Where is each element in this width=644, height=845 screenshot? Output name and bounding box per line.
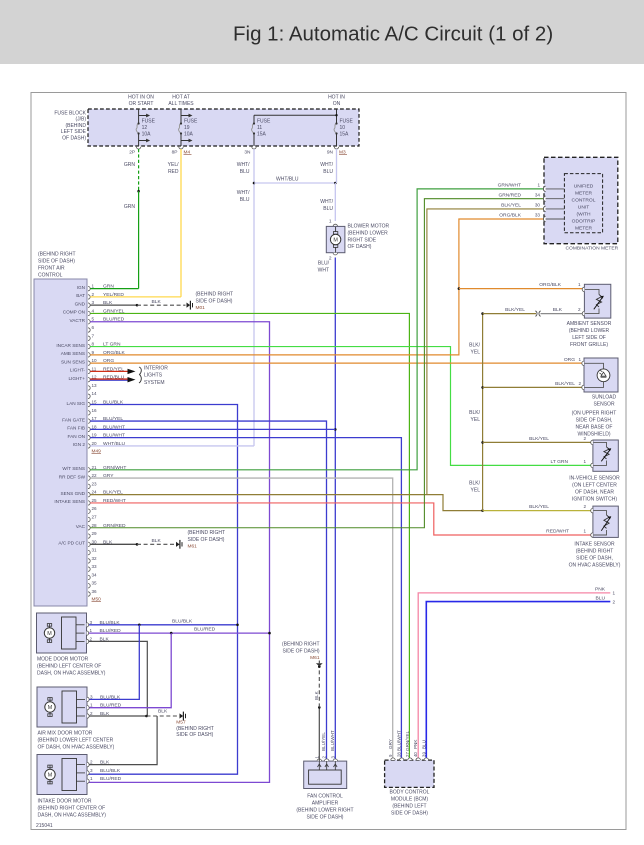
- pin 8 front air control: [88, 344, 90, 348]
- pin 2 front air control: [88, 295, 90, 299]
- svg-text:INTAKE SENS: INTAKE SENS: [54, 499, 85, 504]
- svg-text:COMP ON: COMP ON: [63, 310, 85, 315]
- svg-text:WHT/: WHT/: [237, 162, 250, 168]
- pin 5 front air control: [88, 320, 90, 324]
- svg-text:22: 22: [92, 473, 98, 478]
- wire BLK/YEL bus to intake sensor pin2: [483, 510, 593, 512]
- svg-text:BLK/YEL: BLK/YEL: [529, 436, 549, 442]
- wire air mix branch BLU/BLK: [89, 625, 139, 700]
- svg-text:DASH, ON HVAC ASSEMBLY): DASH, ON HVAC ASSEMBLY): [38, 812, 107, 818]
- wire pin2 YEL/RED: [90, 296, 181, 298]
- svg-text:15A: 15A: [257, 132, 267, 138]
- mode door motor: [37, 613, 87, 653]
- svg-text:BLU/BLK: BLU/BLK: [172, 618, 193, 624]
- svg-text:(BEHIND: (BEHIND: [65, 123, 86, 129]
- svg-text:MODE DOOR MOTOR: MODE DOOR MOTOR: [37, 657, 89, 663]
- pin 9 front air control: [88, 353, 90, 357]
- svg-text:11: 11: [92, 366, 97, 371]
- svg-text:AMB SENS: AMB SENS: [61, 351, 85, 356]
- svg-text:27: 27: [92, 514, 98, 519]
- svg-text:WHT/: WHT/: [237, 190, 250, 196]
- svg-text:10: 10: [340, 125, 346, 131]
- wire mode BLU/RED: [89, 632, 270, 634]
- svg-text:2: 2: [90, 636, 93, 641]
- svg-text:6: 6: [92, 325, 95, 330]
- svg-text:(J/B): (J/B): [75, 117, 86, 123]
- svg-text:1: 1: [578, 282, 581, 287]
- wire ORG/BLK branch to ambient sensor: [459, 288, 583, 290]
- pin 4 front air control: [88, 311, 90, 315]
- svg-text:WHT: WHT: [318, 267, 329, 273]
- svg-text:BLK: BLK: [152, 538, 162, 544]
- wire WHT/BLU from fuse 11: [253, 149, 255, 446]
- svg-text:HOT IN ON: HOT IN ON: [128, 95, 154, 101]
- svg-text:GRN/RED: GRN/RED: [498, 192, 521, 198]
- svg-text:FUSE: FUSE: [340, 118, 354, 124]
- svg-text:VAC: VAC: [76, 524, 86, 529]
- svg-text:WINDSHIELD): WINDSHIELD): [577, 432, 610, 438]
- svg-text:3: 3: [90, 768, 93, 773]
- svg-text:BLU: BLU: [323, 206, 333, 212]
- wire WHT/BLU crossover: [254, 182, 335, 184]
- svg-text:AMPLIFIER: AMPLIFIER: [312, 801, 339, 807]
- svg-text:BLU/: BLU/: [318, 261, 330, 267]
- svg-text:10: 10: [92, 358, 98, 363]
- svg-text:FAN GATE: FAN GATE: [62, 417, 85, 422]
- svg-text:GRN: GRN: [124, 162, 136, 168]
- svg-text:2: 2: [92, 292, 95, 297]
- wire BLK/YEL to in-vehicle pin2: [483, 441, 593, 443]
- svg-text:30: 30: [92, 539, 98, 544]
- svg-text:YEL: YEL: [471, 349, 481, 355]
- svg-text:RED/WHT: RED/WHT: [546, 529, 569, 535]
- svg-text:BLU/RED: BLU/RED: [100, 776, 122, 782]
- svg-text:SIDE OF DASH,: SIDE OF DASH,: [576, 418, 613, 424]
- svg-text:(BEHIND RIGHT: (BEHIND RIGHT: [196, 292, 234, 298]
- svg-text:LIGHT-: LIGHT-: [70, 368, 86, 373]
- wire pin1 GRN: [90, 288, 138, 290]
- svg-text:INTERIOR: INTERIOR: [144, 366, 168, 372]
- svg-text:M61: M61: [310, 655, 320, 661]
- svg-text:FAN FIB: FAN FIB: [67, 426, 85, 431]
- ambient sensor: [584, 284, 610, 318]
- svg-text:IGN: IGN: [77, 285, 85, 290]
- svg-text:SUNLOAD: SUNLOAD: [592, 395, 617, 401]
- wire PNK to BCM 40: [418, 593, 610, 760]
- wire pin20 WHT/BLU from fuse 11: [90, 445, 254, 447]
- svg-text:28: 28: [92, 523, 98, 528]
- wire BLU/WHT blower to fan amp: [334, 258, 336, 762]
- svg-text:15A: 15A: [340, 132, 350, 138]
- svg-text:SIDE OF DASH): SIDE OF DASH): [188, 537, 225, 543]
- svg-text:1: 1: [90, 703, 93, 708]
- pin 35 front air control: [88, 584, 90, 588]
- svg-text:PNK: PNK: [413, 739, 418, 749]
- svg-text:OR START: OR START: [129, 101, 154, 107]
- pin 26 front air control: [88, 509, 90, 513]
- svg-text:BLU/BLK: BLU/BLK: [100, 768, 121, 774]
- svg-text:9N: 9N: [327, 150, 334, 156]
- pin 18 front air control: [88, 427, 90, 431]
- svg-text:BLK/YEL: BLK/YEL: [505, 307, 525, 313]
- svg-text:1: 1: [90, 628, 93, 633]
- pin 36 front air control: [88, 592, 90, 596]
- pin 29 front air control: [88, 534, 90, 538]
- svg-text:LT GRN: LT GRN: [551, 459, 569, 465]
- svg-text:SUN SENS: SUN SENS: [61, 359, 85, 364]
- svg-text:1: 1: [537, 183, 540, 188]
- fuse block J/B: [88, 109, 359, 146]
- svg-text:SENS GND: SENS GND: [61, 491, 86, 496]
- svg-text:M01: M01: [196, 305, 206, 311]
- wire pin22 GRY to BCM 9: [90, 478, 393, 760]
- svg-text:15: 15: [92, 400, 98, 405]
- svg-text:BLK: BLK: [152, 299, 162, 305]
- svg-text:BLK/: BLK/: [469, 410, 480, 416]
- svg-text:IGNITION SWITCH): IGNITION SWITCH): [572, 497, 617, 503]
- internal feed wire fuses 11/10: [254, 114, 337, 116]
- pin 19 front air control: [88, 435, 90, 439]
- title bar: [0, 0, 644, 64]
- svg-text:8: 8: [92, 342, 95, 347]
- svg-text:BLK/: BLK/: [469, 481, 480, 487]
- combination meter: [544, 157, 618, 243]
- pin 31 front air control: [88, 550, 90, 554]
- svg-text:ON HVAC ASSEMBLY): ON HVAC ASSEMBLY): [569, 563, 621, 569]
- svg-text:(BEHIND RIGHT: (BEHIND RIGHT: [188, 530, 226, 536]
- in-vehicle sensor: [593, 440, 618, 471]
- svg-text:1: 1: [90, 776, 93, 781]
- svg-text:M: M: [48, 773, 53, 779]
- svg-text:YEL/: YEL/: [168, 162, 179, 168]
- svg-text:UNIFIED: UNIFIED: [574, 184, 594, 190]
- svg-text:M: M: [333, 238, 338, 244]
- wire BLK/YEL to ambient pin2: [483, 313, 536, 315]
- svg-text:SYSTEM: SYSTEM: [144, 380, 165, 386]
- svg-text:BAT: BAT: [76, 293, 85, 298]
- svg-text:WHT/: WHT/: [320, 162, 333, 168]
- wire air mix BLK to ground M57: [89, 715, 147, 717]
- svg-text:(BEHIND LOWER LEFT CENTER: (BEHIND LOWER LEFT CENTER: [38, 738, 114, 744]
- wire YEL/RED from fuse 19: [180, 149, 182, 297]
- svg-text:30: 30: [535, 203, 541, 208]
- wire air mix branch BLU/RED: [89, 633, 171, 708]
- svg-text:13: 13: [92, 383, 98, 388]
- svg-text:INTAKE DOOR MOTOR: INTAKE DOOR MOTOR: [38, 798, 92, 804]
- svg-text:1: 1: [329, 219, 332, 225]
- svg-text:RED: RED: [168, 169, 179, 175]
- svg-text:BLU/RED: BLU/RED: [194, 627, 216, 633]
- fuse 12: [138, 109, 140, 124]
- svg-text:215041: 215041: [36, 823, 53, 829]
- svg-text:31: 31: [92, 548, 98, 553]
- svg-text:BLK: BLK: [314, 690, 319, 700]
- svg-text:IGN 2: IGN 2: [73, 442, 86, 447]
- wire pin8 LT GRN to in-vehicle sensor: [90, 347, 593, 466]
- svg-text:(ON UPPER RIGHT: (ON UPPER RIGHT: [572, 411, 617, 417]
- svg-text:BLK: BLK: [553, 307, 563, 313]
- pin 25 front air control: [88, 501, 90, 505]
- svg-text:2: 2: [613, 599, 616, 604]
- svg-text:BLU/RED: BLU/RED: [100, 703, 122, 709]
- svg-text:19: 19: [184, 125, 190, 131]
- body control module BCM: [385, 760, 434, 787]
- svg-text:SENSOR: SENSOR: [593, 402, 615, 408]
- svg-text:ORG/BLK: ORG/BLK: [499, 213, 521, 219]
- pin 17 front air control: [88, 419, 90, 423]
- pin 33 front air control: [88, 567, 90, 571]
- svg-text:18: 18: [92, 424, 98, 429]
- svg-text:SIDE OF DASH): SIDE OF DASH): [38, 259, 75, 265]
- svg-text:1: 1: [583, 529, 586, 534]
- svg-text:FRONT GRILLE): FRONT GRILLE): [570, 342, 608, 348]
- svg-text:OF DASH): OF DASH): [62, 135, 86, 141]
- wire mode BLU/BLK: [89, 624, 238, 626]
- svg-text:2P: 2P: [129, 150, 135, 156]
- svg-text:WHT/: WHT/: [320, 199, 333, 205]
- svg-text:3: 3: [90, 694, 93, 699]
- svg-text:(BEHIND RIGHT: (BEHIND RIGHT: [176, 726, 214, 732]
- pin 12 front air control: [88, 377, 90, 381]
- svg-text:AIR MIX DOOR MOTOR: AIR MIX DOOR MOTOR: [38, 731, 93, 737]
- svg-text:3N: 3N: [244, 150, 251, 156]
- svg-text:M57: M57: [176, 720, 186, 726]
- svg-text:MODULE (BCM): MODULE (BCM): [391, 797, 429, 803]
- interior lights system: [139, 367, 141, 383]
- svg-text:LIGHTS: LIGHTS: [144, 373, 163, 379]
- wire pin17 BLU/YEL to fan amp: [90, 421, 326, 761]
- svg-text:NEAR BASE OF: NEAR BASE OF: [576, 425, 613, 431]
- wire BLK/YEL bus vertical: [482, 314, 484, 511]
- pin 30 front air control: [88, 542, 90, 546]
- wire mode BLK: [89, 641, 147, 716]
- wire pin15 BLU/BLK bus: [87, 405, 238, 775]
- pin 20 front air control: [88, 444, 90, 448]
- svg-text:2: 2: [90, 711, 93, 716]
- svg-text:1: 1: [314, 756, 319, 759]
- svg-text:AMBIENT SENSOR: AMBIENT SENSOR: [567, 321, 612, 327]
- svg-text:YEL: YEL: [471, 417, 481, 423]
- wire intake BLK up to M57: [89, 716, 157, 765]
- air mix door motor: [37, 687, 87, 727]
- svg-text:SIDE OF DASH): SIDE OF DASH): [307, 815, 344, 821]
- fuse 19: [180, 109, 182, 124]
- svg-text:33: 33: [92, 564, 98, 569]
- svg-text:BLK/YEL: BLK/YEL: [501, 203, 521, 209]
- svg-text:BLU: BLU: [421, 740, 426, 749]
- pin 1 front air control: [88, 286, 90, 290]
- wire pin9 ORG/BLK to meter 33: [90, 219, 545, 355]
- svg-text:FUSE: FUSE: [142, 118, 156, 124]
- svg-text:(BEHIND LOWER: (BEHIND LOWER: [569, 328, 610, 334]
- wire BLK/YEL to sunload pin2: [483, 386, 584, 388]
- wire pin30 BLK to ground M61: [90, 543, 137, 545]
- svg-text:(BEHIND LEFT CENTER OF: (BEHIND LEFT CENTER OF: [37, 664, 101, 670]
- svg-text:2: 2: [583, 504, 586, 509]
- svg-text:34: 34: [92, 572, 98, 577]
- svg-text:2: 2: [329, 256, 332, 262]
- svg-text:2: 2: [578, 381, 581, 386]
- svg-text:ON: ON: [333, 101, 341, 107]
- pin 34 front air control: [88, 575, 90, 579]
- svg-text:29: 29: [92, 531, 98, 536]
- svg-text:FUSE BLOCK: FUSE BLOCK: [54, 111, 86, 117]
- pin 3 front air control: [88, 303, 90, 307]
- svg-text:10A: 10A: [184, 132, 194, 138]
- svg-text:METER: METER: [575, 191, 593, 197]
- svg-text:CONTROL: CONTROL: [38, 273, 63, 279]
- svg-text:40: 40: [413, 752, 418, 757]
- svg-text:M61: M61: [188, 544, 198, 550]
- wire GRN from fuse 12: [138, 149, 140, 191]
- pin 15 front air control: [88, 402, 90, 406]
- svg-text:BLK/YEL: BLK/YEL: [555, 381, 575, 387]
- svg-text:WHT/BLU: WHT/BLU: [276, 177, 299, 183]
- wire pin11 RED/YEL arrow: [90, 370, 128, 372]
- svg-text:CONTROL: CONTROL: [572, 198, 596, 204]
- svg-text:LIGHT+: LIGHT+: [68, 376, 85, 381]
- wire pin21 GRN/WHT to meter 1: [90, 189, 545, 470]
- svg-text:M: M: [48, 705, 53, 711]
- pin 14 front air control: [88, 394, 90, 398]
- svg-text:BLU: BLU: [323, 169, 333, 175]
- svg-text:SIDE OF DASH,: SIDE OF DASH,: [576, 556, 613, 562]
- svg-text:3: 3: [330, 756, 335, 759]
- svg-text:36: 36: [92, 589, 98, 594]
- svg-text:(BEHIND RIGHT: (BEHIND RIGHT: [38, 252, 76, 258]
- svg-text:33: 33: [535, 213, 541, 218]
- wire pin24 BLK/YEL sensor ground: [90, 495, 482, 511]
- svg-text:HOT AT: HOT AT: [172, 95, 190, 101]
- svg-text:7: 7: [92, 333, 95, 338]
- svg-text:26: 26: [92, 506, 98, 511]
- svg-text:RR DEF SW: RR DEF SW: [59, 474, 86, 479]
- svg-text:21: 21: [92, 465, 98, 470]
- svg-text:LAN SIG: LAN SIG: [67, 401, 86, 406]
- svg-text:GND: GND: [75, 301, 86, 306]
- fuse 11: [253, 115, 255, 123]
- svg-text:W/T SENS: W/T SENS: [62, 466, 85, 471]
- wire pin28 GRN/RED to meter 34: [90, 199, 545, 528]
- svg-text:ORG/BLK: ORG/BLK: [539, 282, 561, 288]
- svg-text:2: 2: [90, 760, 93, 765]
- svg-text:1: 1: [583, 459, 586, 464]
- pin 10 front air control: [88, 361, 90, 365]
- wire pin19 BLU/WHT to BCM 28: [90, 438, 401, 760]
- svg-text:GRN: GRN: [124, 204, 136, 210]
- svg-text:Fig 1: Automatic A/C Circuit (: Fig 1: Automatic A/C Circuit (1 of 2): [233, 23, 553, 46]
- svg-text:17: 17: [92, 416, 98, 421]
- svg-text:3: 3: [92, 300, 95, 305]
- fan control amplifier: [304, 761, 347, 788]
- wire pin25 RED/WHT to intake sensor: [90, 503, 593, 535]
- svg-text:OF DASH): OF DASH): [348, 244, 372, 250]
- svg-text:10A: 10A: [142, 132, 152, 138]
- svg-text:FAN CONTROL: FAN CONTROL: [307, 794, 343, 800]
- svg-text:19: 19: [92, 433, 98, 438]
- pin 32 front air control: [88, 559, 90, 563]
- wire pin12 RED/BLU arrow: [90, 379, 128, 381]
- svg-text:(BEHIND LOWER RIGHT: (BEHIND LOWER RIGHT: [296, 808, 353, 814]
- svg-text:FUSE: FUSE: [257, 118, 271, 124]
- wire fan amp BLK to ground M61: [318, 707, 320, 761]
- svg-text:BODY CONTROL: BODY CONTROL: [390, 790, 430, 796]
- pin 27 front air control: [88, 517, 90, 521]
- svg-text:FUSE: FUSE: [184, 118, 198, 124]
- svg-text:GRN/WHT: GRN/WHT: [498, 183, 521, 189]
- svg-text:UNIT: UNIT: [578, 205, 589, 211]
- fuse 10: [336, 109, 338, 124]
- svg-text:SIDE OF DASH): SIDE OF DASH): [391, 811, 428, 817]
- svg-text:ORG: ORG: [564, 357, 575, 363]
- svg-text:VACTR: VACTR: [69, 318, 85, 323]
- svg-text:IN-VEHICLE SENSOR: IN-VEHICLE SENSOR: [569, 476, 620, 482]
- svg-text:1: 1: [92, 284, 95, 289]
- svg-text:(BEHIND RIGHT: (BEHIND RIGHT: [576, 549, 614, 555]
- pin 11 front air control: [88, 369, 90, 373]
- svg-text:INCAR SENS: INCAR SENS: [56, 343, 85, 348]
- svg-text:INTAKE SENSOR: INTAKE SENSOR: [574, 542, 615, 548]
- svg-text:32: 32: [92, 556, 98, 561]
- svg-text:27: 27: [405, 752, 410, 757]
- svg-text:23: 23: [92, 481, 98, 486]
- svg-text:(BEHIND LEFT: (BEHIND LEFT: [392, 804, 426, 810]
- svg-text:5: 5: [92, 317, 95, 322]
- pin 13 front air control: [88, 386, 90, 390]
- pin 22 front air control: [88, 476, 90, 480]
- svg-text:(BEHIND LOWER: (BEHIND LOWER: [348, 230, 389, 236]
- intake sensor: [593, 506, 618, 537]
- svg-text:20: 20: [92, 441, 98, 446]
- svg-text:4: 4: [92, 308, 95, 313]
- wire pin3 BLK to ground M01: [90, 304, 137, 306]
- svg-text:34: 34: [535, 192, 541, 197]
- wire pin4 GRN/YEL to BCM 27: [90, 313, 409, 760]
- svg-text:BLOWER MOTOR: BLOWER MOTOR: [348, 224, 390, 230]
- svg-text:FAN ON: FAN ON: [68, 434, 85, 439]
- svg-text:LEFT SIDE: LEFT SIDE: [61, 129, 87, 135]
- svg-text:LEFT SIDE OF: LEFT SIDE OF: [572, 335, 606, 341]
- svg-text:COMBINATION METER: COMBINATION METER: [566, 246, 619, 252]
- svg-text:35: 35: [92, 581, 98, 586]
- svg-text:BLK/YEL: BLK/YEL: [529, 504, 549, 510]
- svg-text:(BEHIND RIGHT: (BEHIND RIGHT: [282, 642, 320, 648]
- svg-text:A/C PD CUT: A/C PD CUT: [58, 541, 85, 546]
- svg-text:BLU/WHT: BLU/WHT: [330, 730, 335, 751]
- svg-text:PNK: PNK: [595, 587, 606, 593]
- svg-text:M: M: [47, 631, 52, 637]
- svg-text:14: 14: [92, 391, 98, 396]
- pin 23 front air control: [88, 484, 90, 488]
- svg-text:OF DASH, NEAR: OF DASH, NEAR: [575, 490, 614, 496]
- svg-text:RIGHT SIDE: RIGHT SIDE: [348, 237, 377, 243]
- wire BLU to BCM 39: [426, 602, 610, 760]
- svg-text:(BEHIND RIGHT CENTER OF: (BEHIND RIGHT CENTER OF: [38, 805, 106, 811]
- wire WHT/BLU from fuse 10 to blower: [336, 149, 338, 183]
- intake door motor: [37, 755, 87, 795]
- svg-text:BLK: BLK: [158, 709, 168, 715]
- svg-text:11: 11: [257, 125, 262, 131]
- svg-text:ALL TIMES: ALL TIMES: [168, 101, 194, 107]
- wire meter 30 BLK/YEL down: [427, 209, 545, 495]
- svg-text:GRY: GRY: [388, 739, 393, 749]
- pin 28 front air control: [88, 526, 90, 530]
- wire pin5 BLU/RED bus: [87, 322, 270, 783]
- pin 21 front air control: [88, 468, 90, 472]
- svg-text:BLU: BLU: [595, 595, 605, 601]
- svg-text:2: 2: [578, 307, 581, 312]
- svg-text:DASH, ON HVAC ASSEMBLY): DASH, ON HVAC ASSEMBLY): [37, 671, 106, 677]
